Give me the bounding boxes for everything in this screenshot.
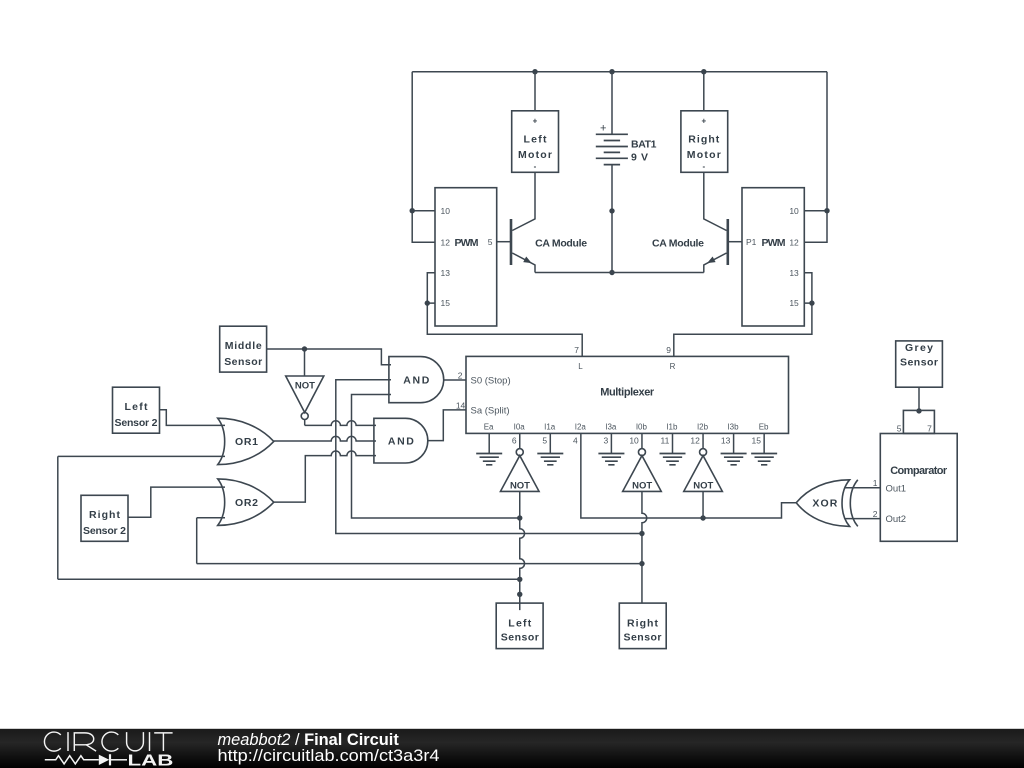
gate AND2 (3-input) [374, 418, 428, 463]
node: junction NOT3 line / y533 wire [639, 531, 644, 536]
gate OR1 [218, 418, 274, 464]
svg-text:Sensor: Sensor [224, 356, 262, 368]
svg-text:Left: Left [524, 134, 548, 146]
svg-text:I3a: I3a [605, 423, 617, 432]
transistor Q2 emitter [704, 253, 727, 273]
svg-text:OR1: OR1 [235, 436, 258, 448]
wire: I2a net from mux to XOR output [581, 433, 796, 518]
wire: OR1 bottom input from Left Sensor net [58, 456, 225, 579]
ground at I3b [721, 454, 747, 465]
svg-text:10: 10 [789, 206, 799, 216]
svg-text:CA Module: CA Module [652, 238, 704, 250]
node: junction top rail / battery [609, 69, 614, 74]
node: junction at connector top [916, 408, 921, 413]
svg-text:Motor: Motor [518, 149, 552, 161]
svg-text:I0a: I0a [514, 423, 526, 432]
svg-text:Out1: Out1 [886, 483, 907, 494]
logo resistor symbol [45, 756, 99, 764]
battery BAT1 9V [611, 72, 613, 273]
gate OR2 [218, 479, 274, 526]
svg-text:Right: Right [627, 617, 659, 629]
svg-text:Ea: Ea [484, 423, 494, 432]
svg-text:+: + [701, 117, 706, 126]
svg-text:Sa (Split): Sa (Split) [471, 406, 510, 417]
node: junction top rail / left motor [532, 69, 537, 74]
wire: NOT2 input line down to Left Sensor (hops over two crossings) [520, 491, 525, 610]
svg-text:-: - [534, 162, 537, 171]
svg-text:Sensor: Sensor [501, 632, 539, 644]
wire: AND1 bottom input from I0a net [352, 395, 520, 519]
svg-text:10: 10 [441, 206, 451, 216]
motor M1 Left Motor box [512, 111, 559, 173]
wire: PWM2 pins 13/15 to mux pin 9 [674, 273, 812, 357]
svg-text:5: 5 [488, 237, 493, 247]
wire: left rail down to PWM1 pins 10 and 12 [412, 72, 435, 243]
chip U1 PWM left box [435, 188, 497, 326]
svg-text:Middle: Middle [225, 340, 262, 352]
svg-text:Sensor 2: Sensor 2 [83, 525, 126, 537]
svg-text:15: 15 [441, 298, 451, 308]
transistor Q1 collector [512, 172, 535, 230]
svg-text:Right: Right [688, 134, 720, 146]
sensor box Right Sensor 2 [81, 495, 128, 541]
wire: Grey Sensor to connector [918, 387, 920, 411]
svg-text:OR2: OR2 [235, 497, 258, 509]
node: junction NOT3 line / y563 wire [639, 561, 644, 566]
svg-text:Sensor: Sensor [900, 356, 938, 368]
svg-text:10: 10 [629, 435, 639, 445]
svg-text:15: 15 [789, 298, 799, 308]
wire: top rail to Right Motor [703, 72, 705, 111]
wire: OR2 bottom input from Right Sensor net [197, 518, 225, 564]
svg-text:I3b: I3b [727, 423, 739, 432]
sensor box Middle Sensor [220, 326, 267, 372]
chip U4 Comparator box [880, 434, 957, 542]
svg-text:NOT: NOT [632, 481, 652, 492]
svg-text:meabbot2 / Final Circuit: meabbot2 / Final Circuit [218, 731, 400, 749]
wire: AND1 middle input from I0b net [336, 380, 642, 534]
node: junction pin13/15 left [425, 300, 430, 305]
svg-text:3: 3 [603, 435, 608, 445]
motor M2 Right Motor box [681, 111, 728, 173]
wire: Right Sensor 2 to OR2 top input [128, 487, 225, 517]
svg-text:S0 (Stop): S0 (Stop) [471, 375, 511, 386]
wire: I3a stub [610, 433, 612, 453]
svg-text:2: 2 [873, 509, 878, 519]
svg-text:9: 9 [666, 345, 671, 355]
wire: Ea stub [488, 433, 490, 453]
sensor box Left Sensor [496, 603, 543, 649]
sensor box Right Sensor [619, 603, 666, 649]
svg-text:Eb: Eb [759, 423, 769, 432]
wire: branch down to NOT1 [304, 349, 306, 376]
svg-text:NOT: NOT [295, 381, 315, 392]
wire: I1a stub [549, 433, 551, 453]
svg-text:7: 7 [574, 345, 579, 355]
svg-text:Motor: Motor [687, 149, 721, 161]
svg-text:5: 5 [897, 424, 902, 434]
wire: Middle Sensor to AND1 top input [267, 349, 391, 365]
svg-text:PWM: PWM [455, 237, 479, 249]
svg-text:NOT: NOT [693, 481, 713, 492]
svg-text:Sensor 2: Sensor 2 [115, 417, 158, 429]
svg-text:Left: Left [508, 617, 532, 629]
inverter NOT4 at I2b (up-pointing) [702, 433, 704, 448]
chip U3 Multiplexer box [466, 356, 789, 433]
ground at Ea [476, 454, 502, 465]
transistor Q2 collector [704, 172, 727, 230]
wire: AND1 output to mux pin 2 [444, 379, 466, 381]
svg-text:R: R [670, 362, 676, 371]
svg-text:Out2: Out2 [886, 514, 907, 525]
svg-text:+: + [533, 117, 538, 126]
wire: Left Sensor 2 to OR1 top input [160, 410, 226, 426]
wire: NOT3 input line down to Right Sensor (hop over I2a net) [642, 491, 647, 603]
gate XOR back arc [850, 480, 858, 527]
wire: NOT4 input stub [702, 491, 704, 518]
svg-text:Multiplexer: Multiplexer [600, 387, 655, 399]
svg-text:Sensor: Sensor [624, 632, 662, 644]
svg-text:1: 1 [873, 478, 878, 488]
battery BAT1 plates [596, 134, 628, 164]
wire: top supply rail [412, 71, 827, 73]
svg-text:12: 12 [441, 237, 451, 247]
wire: Eb stub [763, 433, 765, 453]
node: junction left rail / pin 10 [410, 208, 415, 213]
wire: top rail to Left Motor [534, 72, 536, 111]
svg-text:13: 13 [789, 268, 799, 278]
svg-text:-: - [702, 162, 705, 171]
wire: AND2 output to mux pin 14 [428, 410, 466, 441]
node: segment dot above Left Sensor [517, 592, 522, 597]
svg-text:12: 12 [789, 237, 799, 247]
gate AND1 (3-input) [389, 357, 444, 403]
svg-text:Left: Left [125, 401, 149, 413]
svg-text:PWM: PWM [762, 237, 786, 249]
logo CIRCUIT letters [44, 732, 172, 751]
wire: right rail down to PWM2 pins 10 and 12 [804, 72, 827, 243]
svg-text:9 V: 9 V [631, 151, 648, 163]
svg-text:XOR: XOR [812, 498, 837, 510]
svg-text:2: 2 [458, 370, 463, 380]
transistor Q1 emitter [512, 253, 535, 273]
sensor box Left Sensor 2 [113, 387, 160, 433]
wire: comparator Out2 to XOR input [845, 518, 880, 520]
node: junction NOT2 input / y518 wire [517, 515, 522, 520]
ground at I3a [598, 454, 624, 465]
gate XOR (left-pointing) [796, 480, 849, 527]
node: junction NOT2 line / y579 wire [517, 577, 522, 582]
node: junction Middle Sensor / NOT1 branch [302, 346, 307, 351]
svg-text:I1b: I1b [666, 423, 678, 432]
wire: PWM1 pins 13/15 to mux pin 7 [427, 273, 582, 357]
wire: PWM1 pin 5 to Q1 base [497, 241, 511, 243]
svg-text:11: 11 [660, 435, 669, 445]
sensor box Grey Sensor [896, 341, 943, 387]
svg-text:15: 15 [752, 435, 762, 445]
svg-text:AND: AND [388, 435, 414, 447]
svg-text:CA Module: CA Module [535, 238, 587, 250]
svg-text:13: 13 [441, 268, 451, 278]
ground at I1a [537, 454, 563, 465]
node: junction pin13/15 right [809, 300, 814, 305]
node: segment dot on battery wire [609, 208, 614, 213]
ground at Eb [751, 454, 777, 465]
wire: I1b stub [672, 433, 674, 453]
inverter NOT1 (down-pointing) [286, 376, 324, 413]
node: junction battery / emitter rail [609, 270, 614, 275]
wire: long net OR2-input to Right Sensor column [197, 563, 642, 565]
inverter NOT2 at I0a (up-pointing) [519, 433, 521, 448]
node: junction top rail / right motor [701, 69, 706, 74]
svg-text:5: 5 [542, 435, 547, 445]
node: junction I2a net / NOT4 input [700, 515, 705, 520]
svg-text:Grey: Grey [905, 342, 933, 354]
wire: long net OR1-input to Left Sensor column [58, 578, 520, 580]
inverter NOT3 at I0b (up-pointing) [641, 433, 643, 448]
chip U2 PWM right box [742, 188, 804, 326]
wire: comparator Out1 to XOR input [845, 487, 880, 489]
wire: OR2 output to AND2 bottom input (hops) [274, 451, 376, 502]
svg-text:13: 13 [721, 435, 731, 445]
svg-text:I0b: I0b [636, 423, 648, 432]
transistor Q2 (right CA module) base bar [726, 219, 729, 265]
svg-text:7: 7 [927, 424, 932, 434]
svg-text:6: 6 [512, 435, 517, 445]
wire: I3b stub [733, 433, 735, 453]
connector box on comparator pins 5/7 [903, 410, 934, 433]
transistor Q1 (left CA module) base bar [510, 219, 513, 265]
svg-text:P1: P1 [746, 237, 757, 247]
svg-text:I2a: I2a [575, 423, 587, 432]
wire: PWM2 pin P1 to Q2 base [728, 241, 742, 243]
svg-text:LAB: LAB [128, 752, 174, 768]
wire: OR1 output to AND2 middle input (hops) [274, 436, 376, 441]
transistor Q2 emitter arrow [707, 257, 716, 264]
ground at I1b [660, 454, 686, 465]
wire: emitter rail [535, 272, 704, 274]
svg-text:+: + [600, 123, 606, 135]
svg-text:http://circuitlab.com/ct3a3r4: http://circuitlab.com/ct3a3r4 [218, 747, 440, 765]
svg-text:4: 4 [573, 435, 578, 445]
svg-text:I2b: I2b [697, 423, 709, 432]
logo diode symbol [99, 755, 109, 765]
svg-text:Right: Right [89, 509, 121, 521]
transistor Q1 emitter arrow [523, 257, 532, 264]
svg-text:L: L [578, 362, 583, 371]
svg-text:12: 12 [690, 435, 700, 445]
svg-text:NOT: NOT [510, 481, 530, 492]
svg-text:14: 14 [456, 401, 466, 411]
node: junction right rail / pin 10 [824, 208, 829, 213]
wire: NOT1 output to AND2 top input (hops over two verticals) [305, 420, 376, 426]
svg-text:I1a: I1a [544, 423, 556, 432]
svg-text:BAT1: BAT1 [631, 139, 657, 151]
svg-text:Comparator: Comparator [890, 465, 948, 477]
svg-text:AND: AND [403, 374, 429, 386]
